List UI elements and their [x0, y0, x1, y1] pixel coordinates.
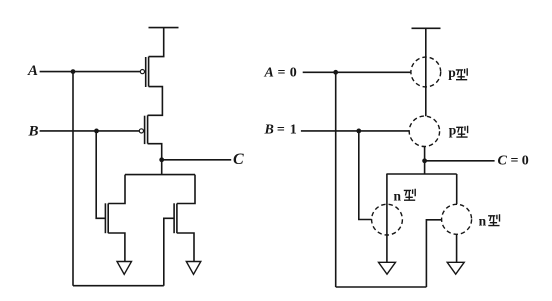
node A junction (left) — [71, 69, 76, 74]
wire B vertical to T3 gate — [359, 131, 372, 220]
node B junction (left) — [94, 129, 99, 134]
power rail VDD (left diagram) — [149, 27, 179, 29]
transistor T2 p-type dashed circle — [409, 116, 439, 146]
svg-text:B=1: B=1 — [264, 123, 297, 138]
power rail VDD (right diagram) — [412, 27, 441, 29]
wire node C to label C — [162, 159, 232, 161]
wire bar to Q3 drain — [108, 175, 125, 204]
wire input B (right) — [301, 130, 409, 132]
wire node C down to drain bar (right) — [424, 161, 426, 174]
wire node C down to drain bar — [161, 160, 163, 175]
node A junction (right) — [333, 70, 338, 75]
wire bar through T3 to ground — [386, 174, 388, 262]
wire bar to Q4 drain — [177, 175, 195, 204]
svg-text:C=0: C=0 — [498, 153, 529, 168]
wire A vertical down (right) — [335, 72, 337, 287]
wire NMOS drain bar (left) — [125, 174, 195, 176]
svg-text:A: A — [27, 63, 38, 79]
wire riser to Q4 gate — [164, 218, 174, 285]
transistor T1 p-type dashed circle — [411, 57, 441, 87]
label 型 glyph (T2) — [456, 126, 467, 137]
ground symbol Q4 — [186, 262, 201, 275]
svg-text:p: p — [449, 123, 457, 138]
wire Q1 source to Q2 drain — [148, 87, 163, 116]
wire A vertical down (left) — [72, 72, 74, 286]
node C junction (right) — [422, 158, 427, 163]
ground symbol Q3 — [117, 262, 132, 275]
wire input B — [40, 130, 140, 132]
wire input A (right) — [303, 71, 411, 73]
svg-text:A=0: A=0 — [264, 66, 297, 81]
wire VDD to Q1 drain arm — [149, 28, 164, 57]
svg-text:C: C — [233, 151, 244, 168]
label 型 glyph (T3) — [404, 189, 415, 200]
transistor T3 n-type dashed circle — [372, 204, 403, 235]
wire node C to label (right) — [425, 160, 495, 162]
wire T4 to ground — [456, 234, 458, 262]
transistor Q3 NMOS (gate B) — [105, 203, 108, 233]
wire bar to T4 top — [456, 174, 458, 204]
ground symbol T3 — [379, 262, 396, 274]
wire NMOS drain bar (right) — [386, 173, 456, 175]
wire T2 to node C (right) — [424, 147, 426, 161]
svg-text:p: p — [448, 65, 456, 80]
label 型 glyph (T4) — [488, 214, 499, 225]
label 型 glyph (T1) — [456, 68, 467, 79]
transistor Q2 PMOS (gate B) — [139, 115, 147, 144]
wire B vertical to Q3 gate — [96, 131, 105, 218]
wire VDD through T1 to T2 top — [425, 28, 427, 116]
wire input A — [40, 71, 141, 73]
ground symbol T4 — [447, 262, 464, 274]
transistor Q4 NMOS (gate A) — [174, 203, 177, 233]
node C junction (left) — [159, 157, 164, 162]
wire bottom rail (left) — [73, 285, 164, 287]
svg-text:n: n — [479, 214, 487, 229]
svg-text:B: B — [28, 124, 39, 140]
node B junction (right) — [356, 129, 361, 134]
wire bottom rail (right) — [336, 286, 427, 288]
wire Q4 source to ground — [177, 233, 194, 262]
wire Q3 source to ground — [108, 233, 125, 262]
wire Q2 source to node C — [148, 144, 162, 160]
transistor Q1 PMOS (gate A) — [140, 57, 148, 87]
wire riser to T4 gate — [426, 220, 441, 287]
svg-text:n: n — [394, 188, 402, 203]
transistor T4 n-type dashed circle — [442, 204, 472, 234]
